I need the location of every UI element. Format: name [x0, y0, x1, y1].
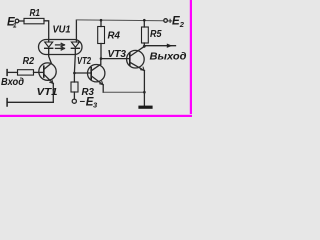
photodiode of VU1 — [71, 42, 79, 48]
magenta border bottom — [0, 114, 192, 115]
wire E1 to R1 — [19, 20, 24, 22]
input terminal bar bottom — [6, 99, 8, 106]
terminal -E3 — [72, 99, 76, 103]
svg-text:VT2: VT2 — [77, 56, 91, 67]
wire R3 to -E3 terminal — [73, 92, 75, 99]
node C junction — [100, 57, 103, 60]
wire node C to VT3 base — [101, 58, 130, 60]
resistor R1 — [24, 18, 44, 23]
svg-text:R4: R4 — [108, 30, 121, 41]
wire VT3 emitter down — [143, 71, 145, 93]
optocoupler U1 body — [39, 40, 83, 55]
bottom rail VT2 to ground — [103, 91, 144, 93]
magenta border right — [189, 0, 190, 117]
svg-text:R5: R5 — [150, 29, 162, 40]
wire VT2 emitter down — [102, 85, 104, 92]
svg-text:Выход: Выход — [150, 50, 188, 62]
resistor R2 — [18, 70, 34, 75]
transistor VT1 — [39, 63, 56, 84]
terminal +E2 — [164, 19, 168, 23]
wire node C to VT2 collector — [100, 59, 102, 65]
transistor VT3 — [127, 46, 145, 70]
svg-text:−: − — [80, 97, 86, 108]
wire VT1 emitter down — [52, 84, 54, 103]
wire node D to R5 — [143, 43, 145, 46]
node D junction (R5/collector/output) — [143, 45, 146, 48]
svg-text:E: E — [172, 16, 180, 28]
svg-text:VU1: VU1 — [53, 25, 71, 36]
svg-text:2: 2 — [179, 20, 185, 29]
wire node B to VT2 base — [74, 72, 91, 74]
wire R1 to LED corner — [44, 21, 49, 42]
LED of VU1 — [45, 42, 53, 63]
wire R2 to VT1 base — [34, 71, 44, 73]
ground bar — [140, 106, 151, 109]
junction R5 top — [143, 19, 146, 22]
resistor R3 — [71, 82, 78, 92]
wire photodiode top riser to +E2 rail — [75, 20, 77, 42]
wire node B to R3 — [73, 73, 75, 82]
junction ground node — [143, 91, 146, 94]
resistor R5 — [142, 27, 149, 43]
svg-text:R2: R2 — [23, 56, 35, 67]
label E1 — [1, 8, 187, 110]
wire R4 to node C — [100, 44, 102, 59]
ground stem — [143, 92, 145, 105]
output wire with arrow — [144, 45, 175, 47]
junction R4 top — [100, 19, 103, 22]
svg-text:Вход: Вход — [1, 77, 24, 88]
wire rail to R4 — [100, 20, 102, 26]
wire R5 to rail — [143, 20, 145, 27]
wire bottom input rail — [7, 101, 53, 103]
input terminal bar top — [6, 70, 8, 76]
svg-text:R1: R1 — [30, 8, 41, 19]
wire photodiode bottom to node B — [73, 49, 76, 73]
opto light arrows — [56, 43, 65, 50]
svg-text:VT3: VT3 — [108, 49, 127, 60]
resistor R4 — [98, 27, 105, 44]
node B junction — [73, 72, 76, 75]
transistor VT2 — [88, 64, 105, 85]
top rail — [76, 19, 163, 22]
terminal E1 — [15, 19, 19, 23]
svg-text:1: 1 — [13, 22, 17, 29]
svg-text:VT1: VT1 — [37, 87, 58, 98]
wire input to R2 — [7, 71, 17, 73]
